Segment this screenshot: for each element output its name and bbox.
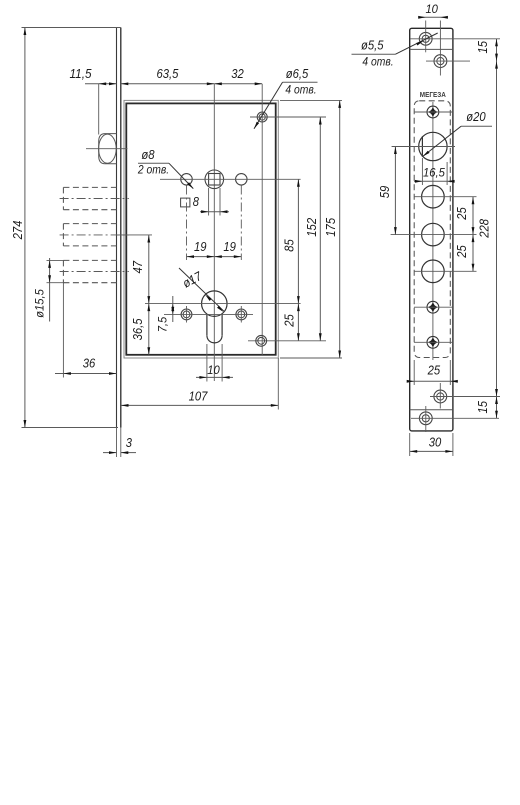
svg-text:175: 175	[324, 218, 338, 237]
svg-text:36,5: 36,5	[131, 318, 145, 340]
svg-text:47: 47	[131, 260, 145, 273]
svg-text:15: 15	[476, 41, 490, 54]
svg-text:19: 19	[223, 240, 236, 254]
svg-text:7,5: 7,5	[156, 316, 170, 332]
svg-text:ø17: ø17	[180, 269, 205, 291]
svg-text:85: 85	[283, 239, 297, 252]
svg-text:11,5: 11,5	[70, 67, 92, 81]
svg-text:36: 36	[83, 356, 96, 370]
svg-text:16,5: 16,5	[423, 165, 445, 179]
svg-text:10: 10	[425, 4, 438, 16]
svg-text:ø15,5: ø15,5	[33, 289, 47, 318]
svg-text:3: 3	[126, 436, 132, 450]
svg-text:ø20: ø20	[466, 110, 485, 124]
svg-text:32: 32	[231, 67, 244, 81]
svg-text:ø6,5: ø6,5	[286, 67, 309, 81]
svg-text:19: 19	[194, 240, 207, 254]
svg-text:25: 25	[427, 364, 440, 378]
svg-text:8: 8	[193, 194, 200, 209]
svg-text:10: 10	[207, 363, 220, 377]
svg-text:25: 25	[455, 207, 469, 220]
svg-text:ø8: ø8	[141, 148, 154, 162]
svg-text:25: 25	[455, 245, 469, 258]
svg-text:25: 25	[283, 314, 297, 327]
svg-text:МЕГЕЗА: МЕГЕЗА	[420, 90, 446, 99]
svg-text:63,5: 63,5	[157, 67, 179, 81]
svg-text:152: 152	[305, 218, 319, 237]
svg-text:107: 107	[189, 389, 209, 403]
svg-text:59: 59	[378, 186, 392, 199]
svg-text:2 отв.: 2 отв.	[137, 163, 169, 177]
svg-text:30: 30	[429, 435, 442, 449]
svg-text:228: 228	[477, 219, 491, 239]
svg-text:ø5,5: ø5,5	[361, 39, 384, 53]
svg-text:274: 274	[11, 221, 25, 241]
svg-text:4 отв.: 4 отв.	[362, 55, 393, 69]
svg-text:15: 15	[476, 401, 490, 414]
svg-text:4 отв.: 4 отв.	[285, 83, 316, 97]
